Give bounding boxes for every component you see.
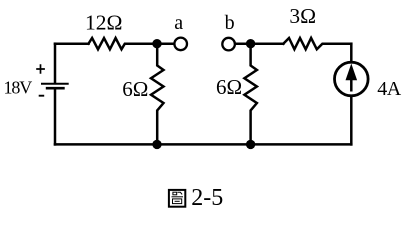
svg-text:a: a bbox=[174, 12, 183, 34]
svg-text:12Ω: 12Ω bbox=[85, 10, 122, 34]
svg-text:18V: 18V bbox=[4, 77, 33, 97]
svg-text:4A: 4A bbox=[377, 78, 402, 100]
svg-text:b: b bbox=[225, 12, 235, 34]
svg-text:3Ω: 3Ω bbox=[289, 4, 316, 28]
svg-text:2-5: 2-5 bbox=[191, 185, 223, 211]
svg-text:6Ω: 6Ω bbox=[216, 75, 242, 99]
svg-text:6Ω: 6Ω bbox=[122, 77, 148, 101]
